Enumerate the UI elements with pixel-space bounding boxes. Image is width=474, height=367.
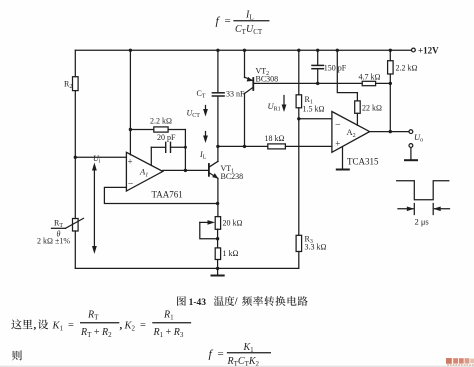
svg-text:+: + (335, 139, 340, 149)
watermark logo (446, 358, 474, 366)
wire R3 to bottom rail (298, 252, 300, 269)
svg-text:=: = (68, 320, 74, 331)
wire bottom rail (75, 267, 298, 269)
formula f = K1/(RT CT K2) (209, 342, 271, 367)
wire 1k to bottom rail (217, 260, 219, 269)
svg-text:TAA761: TAA761 (152, 190, 183, 200)
op-amp A1 TAA761 (126, 152, 182, 199)
capacitor 20pF (151, 133, 185, 165)
wire A2 output (370, 131, 409, 133)
arrow Ui (92, 154, 101, 254)
caption figure title (177, 296, 206, 308)
wire pot to 1k (217, 229, 219, 248)
wire +input A1 (75, 156, 126, 158)
transistor VT1 BC238 (209, 161, 243, 181)
svg-text:RT + R2: RT + R2 (80, 327, 112, 339)
svg-text:4.7 kΩ: 4.7 kΩ (359, 73, 381, 82)
wire VT1 collector up (217, 146, 219, 161)
resistor 1k (215, 248, 238, 260)
svg-text:22 kΩ: 22 kΩ (362, 104, 382, 113)
wire VT2 collector down (244, 94, 246, 147)
svg-text:=: = (218, 348, 224, 360)
svg-text:1-43: 1-43 (189, 298, 207, 308)
resistor R3 3.3k (296, 235, 326, 252)
wire left rail top (74, 50, 76, 76)
wire -input A2 (299, 118, 332, 120)
resistor 2.2k feedback (130, 117, 185, 133)
svg-text:2.2 kΩ: 2.2 kΩ (150, 117, 172, 126)
wire +12V top rail (75, 49, 411, 51)
text zheli she K1 K2 (11, 319, 36, 331)
wire VT1 emitter down (217, 178, 219, 216)
thermistor RT (37, 218, 84, 245)
scan artifact bottom line (0, 365, 474, 367)
svg-text:2 μs: 2 μs (415, 217, 429, 227)
resistor 22k (337, 50, 382, 125)
op-amp A2 TCA315 (332, 112, 379, 167)
svg-text:2 kΩ ±1%: 2 kΩ ±1% (37, 237, 70, 246)
terminal +12V (412, 46, 440, 56)
svg-text:20 pF: 20 pF (157, 133, 176, 142)
terminal ground output (405, 144, 417, 161)
resistor 18k (218, 134, 332, 149)
svg-text:BC308: BC308 (256, 74, 279, 83)
svg-text:=: = (225, 15, 231, 27)
svg-text:−: − (128, 179, 134, 190)
svg-text:/: / (234, 297, 238, 308)
svg-text:BC238: BC238 (221, 172, 244, 181)
arrow IL (199, 132, 208, 161)
svg-text:2.2 kΩ: 2.2 kΩ (396, 64, 418, 73)
fraction R1/(R1+R3) (153, 310, 191, 339)
text ze (12, 350, 22, 360)
svg-text:−: − (335, 119, 341, 130)
wire left rail bottom (74, 231, 76, 268)
resistor R1 1.5k (296, 50, 324, 113)
ground bottom (212, 268, 224, 275)
svg-text:18 kΩ: 18 kΩ (265, 134, 285, 143)
capacitor CT 33nF (197, 50, 246, 146)
wire R1 to R3 (298, 108, 300, 236)
transistor VT2 BC308 (245, 50, 279, 93)
node +input junction (74, 156, 77, 159)
wire 2.2k to output (184, 130, 186, 171)
waveform output pulse (397, 181, 449, 200)
wire -input feedback loop A1 (104, 187, 217, 203)
resistor R2 (64, 77, 78, 91)
wire 2.2k to output (389, 83, 391, 131)
arrow UCT (187, 106, 208, 120)
formula f = IL/(CT UCT) (216, 10, 269, 36)
capacitor 150pF (312, 50, 347, 83)
arrow UR1 (268, 96, 287, 113)
node bottom ground junction (216, 267, 219, 270)
svg-text:R1 + R3: R1 + R3 (153, 327, 184, 339)
wire A1 top pin from rail (129, 50, 131, 155)
fraction RT/(RT+R2) (80, 310, 119, 339)
node top rail junctions (129, 49, 392, 52)
potentiometer 20k (200, 217, 243, 239)
svg-text:1 kΩ: 1 kΩ (223, 249, 239, 258)
wire VT2 base line (253, 82, 362, 84)
svg-text:33 nF: 33 nF (226, 90, 245, 99)
svg-text:,: , (34, 320, 37, 332)
dimension 2us (398, 204, 450, 227)
resistor 2.2k right (388, 50, 418, 83)
wire A1 output (163, 169, 208, 171)
svg-text:150 pF: 150 pF (324, 64, 347, 73)
ground A2 (337, 147, 349, 170)
svg-text:=: = (140, 320, 146, 331)
svg-text:+: + (128, 157, 133, 167)
svg-text:3.3 kΩ: 3.3 kΩ (305, 243, 327, 252)
terminal Uo (409, 130, 423, 144)
svg-text:,: , (120, 320, 123, 332)
svg-text:RTCTK2: RTCTK2 (227, 356, 260, 367)
svg-text:+12V: +12V (418, 46, 439, 56)
svg-text:1.5 kΩ: 1.5 kΩ (303, 105, 325, 114)
svg-text:20 kΩ: 20 kΩ (223, 219, 243, 228)
svg-text:TCA315: TCA315 (347, 157, 379, 167)
wire left rail middle (74, 91, 76, 219)
resistor 4.7k (359, 73, 391, 86)
